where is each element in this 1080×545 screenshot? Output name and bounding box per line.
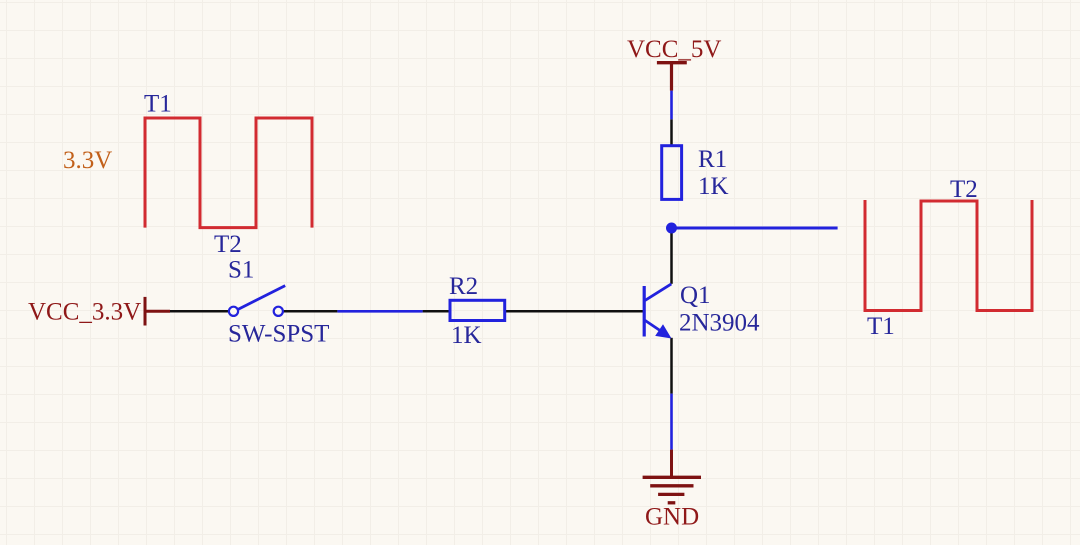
svg-text:Q1: Q1 (680, 282, 711, 309)
svg-text:S1: S1 (228, 257, 254, 284)
svg-text:T2: T2 (214, 231, 242, 258)
svg-text:T1: T1 (144, 91, 172, 118)
svg-text:T2: T2 (950, 176, 978, 203)
svg-text:VCC_5V: VCC_5V (627, 36, 721, 63)
svg-text:2N3904: 2N3904 (679, 310, 760, 337)
svg-text:T1: T1 (867, 313, 895, 340)
svg-text:GND: GND (645, 504, 699, 531)
svg-text:R2: R2 (449, 273, 478, 300)
svg-text:VCC_3.3V: VCC_3.3V (28, 299, 141, 326)
svg-text:SW-SPST: SW-SPST (228, 321, 329, 348)
svg-text:3.3V: 3.3V (63, 147, 112, 174)
svg-text:1K: 1K (451, 322, 482, 349)
svg-text:R1: R1 (698, 146, 727, 173)
svg-text:1K: 1K (698, 173, 729, 200)
